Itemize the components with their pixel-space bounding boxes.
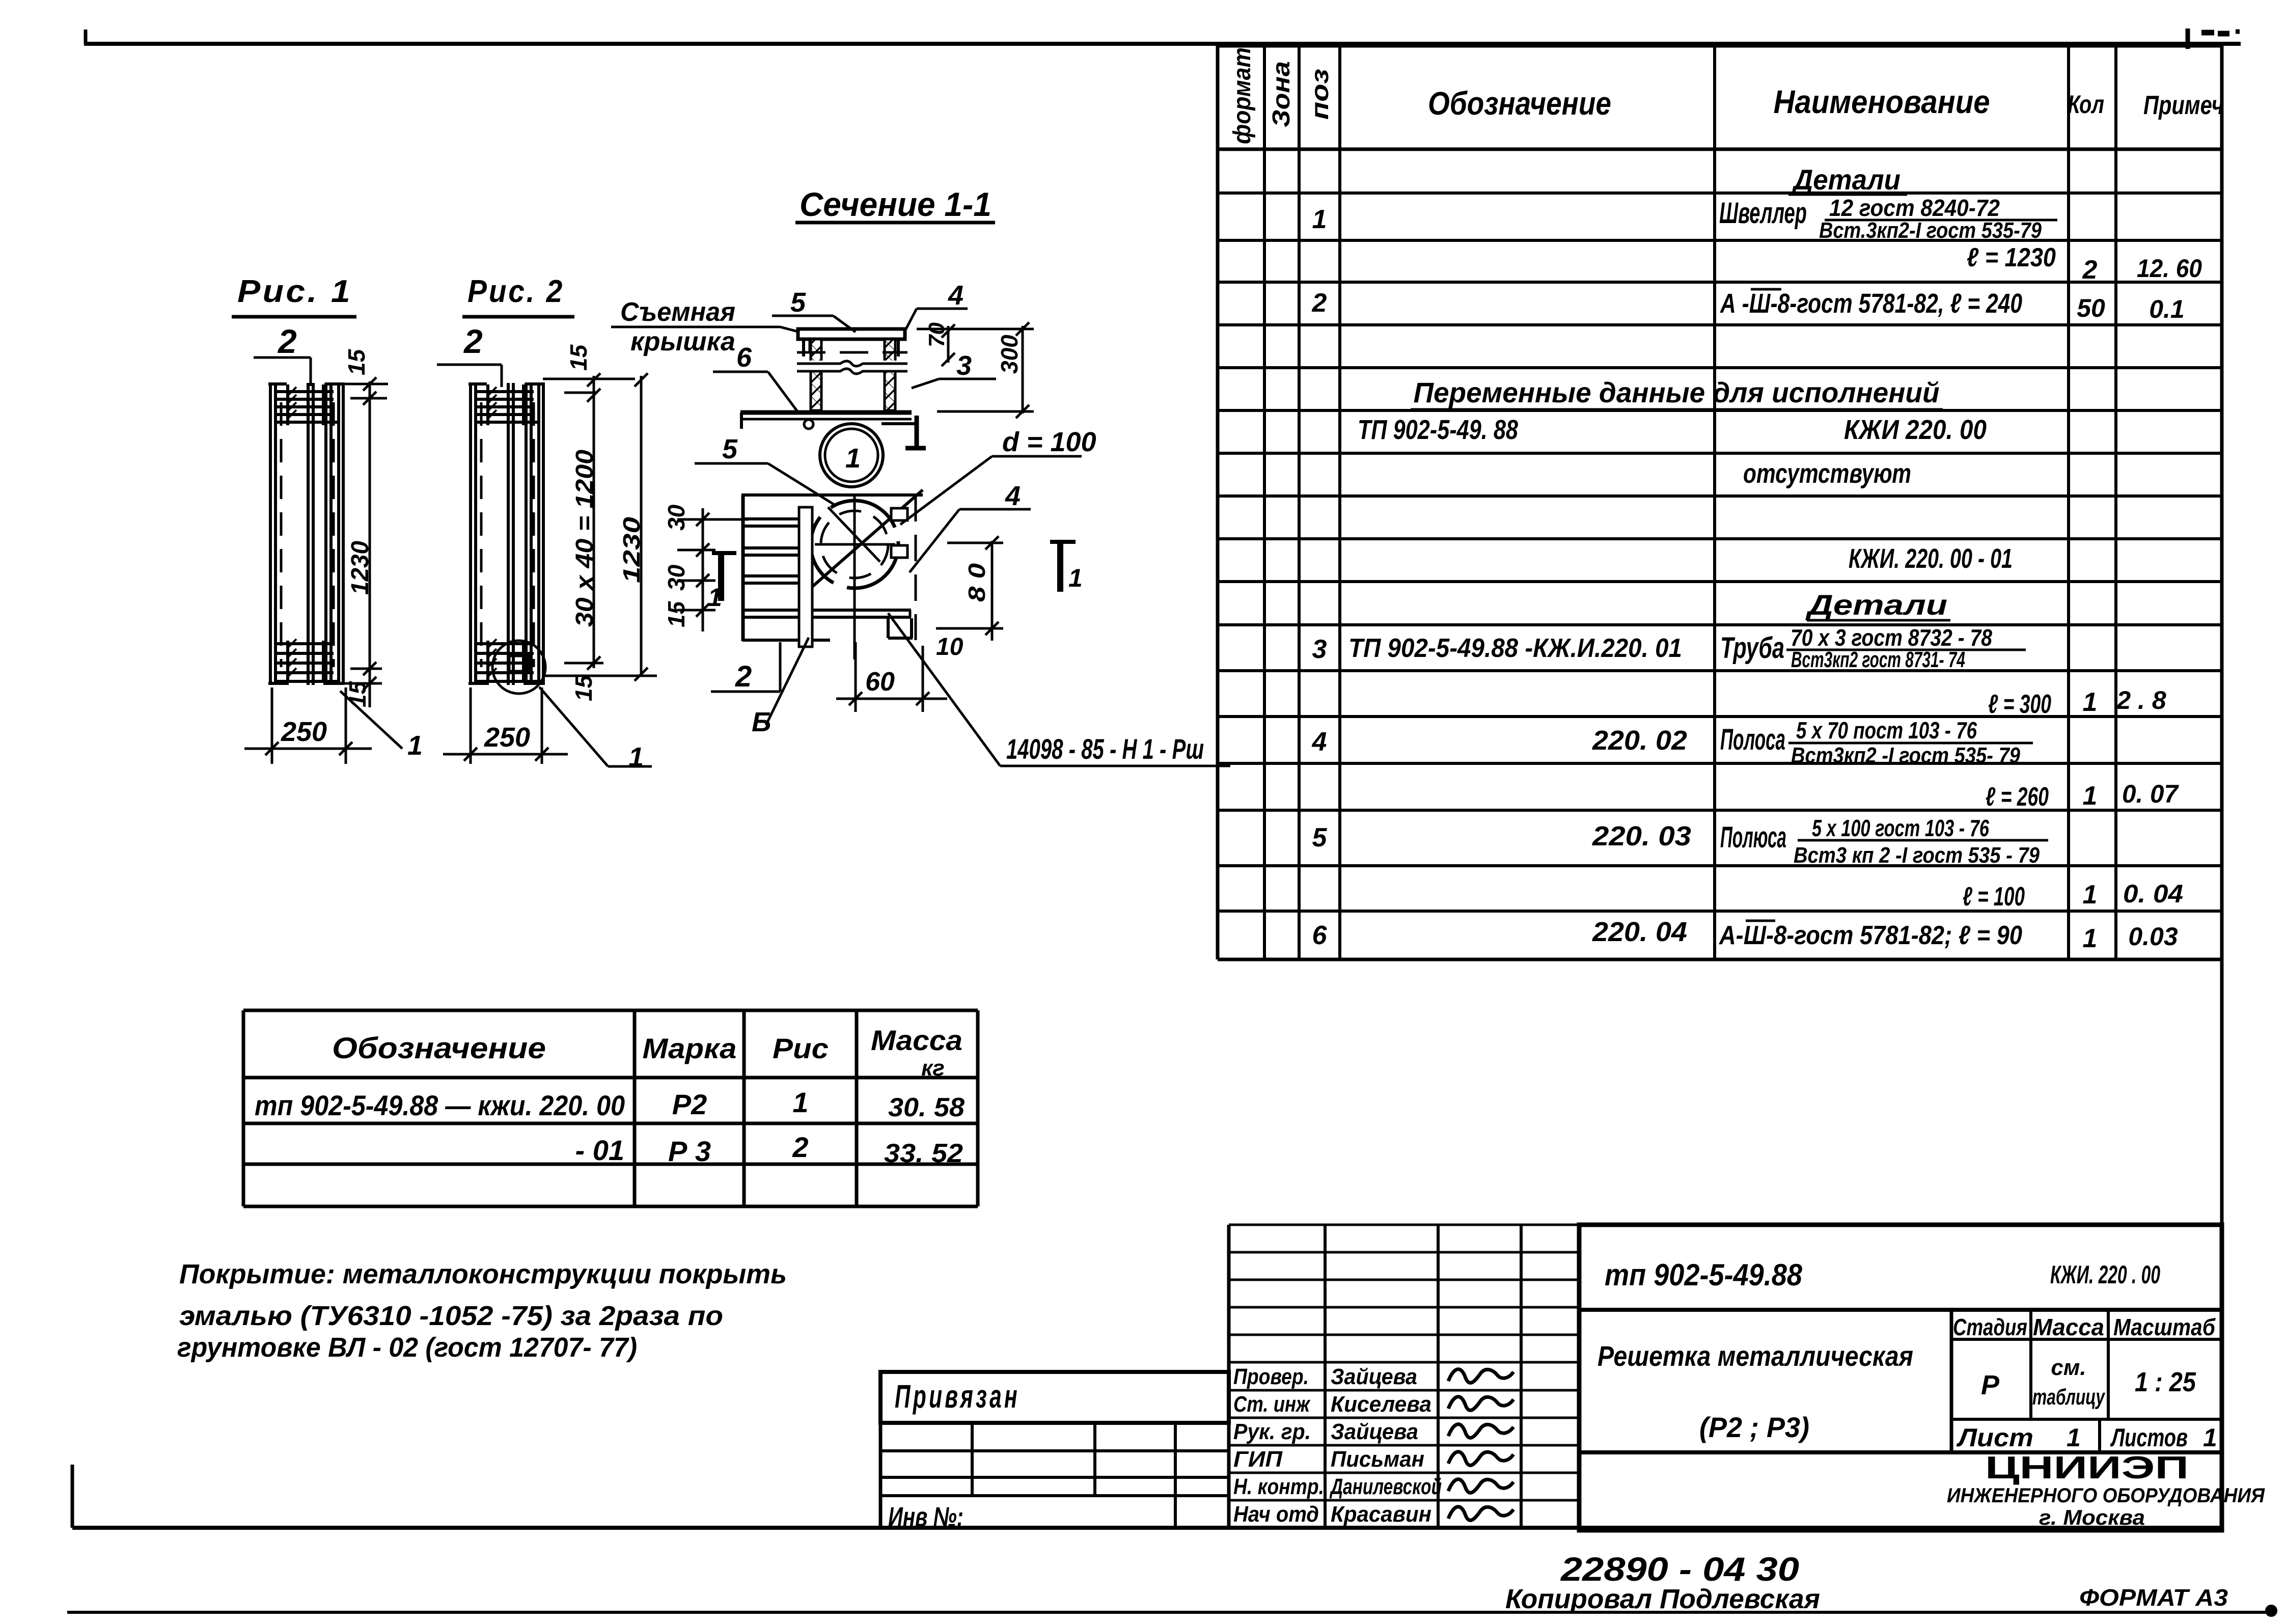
- svg-text:Зайцева: Зайцева: [1331, 1419, 1418, 1444]
- svg-text:Провер.: Провер.: [1233, 1364, 1309, 1389]
- svg-text:50: 50: [2077, 294, 2105, 322]
- svg-text:ℓ = 300: ℓ = 300: [1988, 690, 2051, 719]
- svg-text:Масштаб: Масштаб: [2113, 1314, 2216, 1340]
- svg-text:Примеч: Примеч: [2143, 91, 2224, 120]
- svg-text:2: 2: [792, 1131, 808, 1163]
- left lower grid: [880, 1449, 1229, 1452]
- svg-text:поз: поз: [1307, 69, 1334, 120]
- svg-text:1: 1: [2083, 924, 2098, 953]
- channel outer walls: [469, 383, 472, 685]
- svg-text:1: 1: [1312, 205, 1327, 234]
- svg-text:ГИП: ГИП: [1233, 1447, 1283, 1472]
- svg-text:0. 04: 0. 04: [2123, 879, 2183, 908]
- svg-text:5: 5: [790, 287, 806, 318]
- svg-text:Привязан: Привязан: [895, 1378, 1020, 1415]
- svg-text:5 х 100 гост 103 - 76: 5 х 100 гост 103 - 76: [1812, 815, 1989, 841]
- title block big box: [1579, 1225, 2222, 1530]
- svg-text:Рис. 1: Рис. 1: [237, 274, 352, 309]
- bottom-left table grid: [242, 1010, 245, 1206]
- svg-text:ℓ = 100: ℓ = 100: [1963, 882, 2025, 912]
- svg-text:6: 6: [736, 342, 752, 373]
- svg-text:ФОРМАТ А3: ФОРМАТ А3: [2079, 1584, 2228, 1611]
- svg-text:формат: формат: [1229, 47, 1256, 144]
- svg-text:А-Ш-8-гост 5781-82; ℓ = 90: А-Ш-8-гост 5781-82; ℓ = 90: [1718, 921, 2022, 950]
- svg-text:Марка: Марка: [643, 1032, 737, 1064]
- svg-text:70: 70: [924, 322, 949, 347]
- hook right: [882, 422, 917, 425]
- section cut mark left: [718, 551, 724, 601]
- very bottom line: [67, 1611, 2269, 1614]
- right frame line: [2220, 44, 2224, 1529]
- channel hidden dash lines: [280, 402, 283, 667]
- svg-text:15: 15: [344, 680, 371, 707]
- svg-text:3: 3: [956, 350, 972, 381]
- dim 80: [991, 541, 994, 641]
- svg-text:Листов: Листов: [2110, 1423, 2188, 1452]
- svg-text:ТП 902-5-49. 88: ТП 902-5-49. 88: [1358, 415, 1518, 445]
- svg-text:300: 300: [996, 335, 1023, 374]
- svg-text:Наименование: Наименование: [1774, 84, 1990, 120]
- spec table grid: [1216, 46, 1220, 959]
- svg-text:А -Ш-8-гост 5781-82, ℓ = 240: А -Ш-8-гост 5781-82, ℓ = 240: [1719, 288, 2022, 319]
- svg-text:220. 03: 220. 03: [1592, 821, 1691, 851]
- svg-text:1: 1: [628, 742, 644, 773]
- svg-text:г. Москва: г. Москва: [2039, 1505, 2145, 1529]
- svg-text:Зайцева: Зайцева: [1331, 1364, 1417, 1389]
- svg-text:30. 58: 30. 58: [888, 1093, 965, 1122]
- svg-text:Нач отд: Нач отд: [1233, 1502, 1319, 1527]
- svg-text:Покрытие: металлоконструкции: Покрытие: металлоконструкции покрыть: [179, 1259, 787, 1289]
- right flange stubs: [891, 508, 907, 520]
- fig2 circle detail: [492, 641, 545, 694]
- svg-text:КЖИ 220. 00: КЖИ 220. 00: [1844, 415, 1987, 445]
- svg-text:1: 1: [407, 730, 423, 761]
- svg-text:15: 15: [663, 600, 690, 627]
- svg-text:15: 15: [565, 344, 592, 371]
- fig2 leader 1: [539, 687, 608, 766]
- svg-text:0.03: 0.03: [2128, 922, 2178, 951]
- svg-text:2: 2: [277, 322, 297, 360]
- svg-text:30 х 40 = 1200: 30 х 40 = 1200: [571, 450, 598, 627]
- fig2 dim 250: [470, 687, 472, 764]
- pipe circle 1: [820, 424, 883, 487]
- svg-text:30: 30: [663, 564, 690, 591]
- top right corner marks: [2186, 29, 2190, 49]
- cover plate end tabs: [802, 339, 805, 356]
- top frame line: [84, 42, 2241, 46]
- svg-text:Ст. инж: Ст. инж: [1233, 1392, 1311, 1417]
- bottom rebar band: [477, 642, 534, 645]
- svg-text:(Р2 ; Р3): (Р2 ; Р3): [1699, 1411, 1809, 1443]
- svg-text:Р 3: Р 3: [668, 1135, 711, 1167]
- svg-text:КЖИ. 220. 00 - 01: КЖИ. 220. 00 - 01: [1849, 543, 2013, 574]
- svg-text:4: 4: [1005, 481, 1021, 511]
- channel top/bottom caps: [268, 382, 287, 386]
- svg-text:Переменные данные для испол: Переменные данные для исполнений: [1414, 376, 1940, 408]
- fig1 dim line right (15/1230/15): [369, 381, 371, 707]
- svg-text:1230: 1230: [618, 516, 645, 583]
- svg-text:Решетка металлическая: Решетка металлическая: [1598, 1340, 1913, 1372]
- dim 60: [855, 642, 857, 712]
- fig1 dim 250: [271, 687, 273, 764]
- svg-text:ИНЖЕНЕРНОГО ОБОРУДОВАНИЯ: ИНЖЕНЕРНОГО ОБОРУДОВАНИЯ: [1947, 1484, 2265, 1507]
- main grate body: [741, 493, 923, 497]
- svg-text:ЦНИИЭП: ЦНИИЭП: [1985, 1450, 2189, 1485]
- svg-text:Лист: Лист: [1957, 1423, 2033, 1452]
- svg-text:2: 2: [735, 660, 752, 693]
- circle diagonals: [804, 490, 923, 594]
- svg-text:1: 1: [2083, 880, 2098, 910]
- svg-text:Сечение 1-1: Сечение 1-1: [800, 185, 991, 223]
- svg-text:тп 902-5-49.88 — кжи. 220. 00: тп 902-5-49.88 — кжи. 220. 00: [255, 1089, 625, 1121]
- svg-text:14098 - 85 - Н 1 - Рш: 14098 - 85 - Н 1 - Рш: [1006, 733, 1204, 765]
- svg-text:Стадия: Стадия: [1953, 1314, 2027, 1340]
- svg-text:1: 1: [845, 443, 861, 474]
- svg-text:грунтовке ВЛ - 02 (гост 1: грунтовке ВЛ - 02 (гост 12707- 77): [177, 1332, 637, 1363]
- right bottom angle piece: [887, 618, 890, 638]
- svg-text:0.1: 0.1: [2149, 295, 2185, 323]
- svg-text:1: 1: [2203, 1423, 2217, 1452]
- svg-text:Рис. 2: Рис. 2: [467, 274, 564, 309]
- svg-text:ТП 902-5-49.88 -КЖ.И.220.: ТП 902-5-49.88 -КЖ.И.220. 01: [1348, 634, 1682, 663]
- svg-text:4: 4: [1312, 727, 1327, 757]
- svg-text:Зона: Зона: [1268, 61, 1295, 127]
- svg-text:Съемная: Съемная: [620, 297, 735, 327]
- svg-text:Полюса: Полюса: [1720, 821, 1786, 854]
- svg-text:30: 30: [663, 504, 690, 531]
- svg-text:5 х 70 пост 103 - 76: 5 х 70 пост 103 - 76: [1796, 717, 1977, 744]
- break band: [794, 361, 910, 372]
- svg-text:Киселева: Киселева: [1331, 1392, 1431, 1417]
- svg-text:4: 4: [948, 280, 963, 311]
- svg-text:1: 1: [792, 1086, 808, 1118]
- svg-text:6: 6: [1312, 921, 1328, 950]
- svg-text:Обозначение: Обозначение: [332, 1032, 546, 1065]
- svg-text:1: 1: [2067, 1423, 2081, 1452]
- svg-text:Данилевской: Данилевской: [1329, 1474, 1442, 1499]
- svg-text:Труба: Труба: [1720, 631, 1784, 665]
- svg-text:Рис: Рис: [773, 1032, 829, 1064]
- svg-text:250: 250: [484, 722, 530, 753]
- svg-text:2 . 8: 2 . 8: [2116, 686, 2166, 714]
- svg-text:220. 04: 220. 04: [1592, 917, 1687, 947]
- svg-text:2: 2: [2082, 255, 2098, 285]
- bottom frame line: [72, 1526, 2222, 1530]
- svg-text:5: 5: [1312, 823, 1328, 852]
- svg-text:Копировал Подлевская: Копировал Подлевская: [1505, 1584, 1820, 1614]
- svg-text:8 0: 8 0: [963, 563, 990, 602]
- svg-text:Кол: Кол: [2068, 90, 2104, 119]
- channel middle bars: [307, 383, 310, 685]
- dim 300: [1022, 326, 1024, 414]
- fig2 dim line 1230: [640, 376, 643, 676]
- Лист row: [2098, 1419, 2101, 1452]
- svg-text:1230: 1230: [347, 541, 374, 595]
- svg-text:Швеллер: Швеллер: [1719, 197, 1807, 230]
- svg-text:2: 2: [463, 322, 483, 360]
- big circle with dashed inner: [811, 501, 898, 588]
- стадия масса масштаб: [1950, 1310, 1953, 1452]
- svg-text:1 : 25: 1 : 25: [2135, 1367, 2196, 1397]
- svg-text:Н. контр.: Н. контр.: [1233, 1474, 1324, 1499]
- circle centerlines: [853, 497, 856, 659]
- svg-text:Рук. гр.: Рук. гр.: [1233, 1419, 1311, 1444]
- channel outer walls: [269, 383, 272, 685]
- svg-text:3: 3: [1312, 635, 1327, 664]
- svg-text:Письман: Письман: [1331, 1447, 1424, 1472]
- svg-text:22890 - 04 30: 22890 - 04 30: [1560, 1550, 1800, 1588]
- svg-text:60: 60: [865, 667, 895, 697]
- svg-text:- 01: - 01: [575, 1134, 625, 1166]
- svg-text:33. 52: 33. 52: [884, 1139, 963, 1168]
- cover posts hatched: [811, 339, 821, 410]
- bottom rebar band: [277, 642, 334, 645]
- svg-text:ℓ = 1230: ℓ = 1230: [1967, 243, 2056, 272]
- svg-text:Обозначение: Обозначение: [1428, 85, 1611, 122]
- svg-text:Полоса: Полоса: [1720, 723, 1785, 756]
- svg-text:5: 5: [722, 434, 738, 464]
- svg-text:1: 1: [2083, 687, 2098, 717]
- cover dashed mid line: [797, 351, 907, 354]
- svg-text:220. 02: 220. 02: [1592, 725, 1687, 756]
- svg-text:1: 1: [708, 583, 722, 612]
- Привязан box: [880, 1372, 1229, 1423]
- cover top plate: [798, 329, 905, 339]
- fig2 dim line 30x40=1200: [593, 376, 595, 668]
- svg-text:кг: кг: [921, 1056, 945, 1081]
- svg-text:Вст.3кп2-I гост 535-79: Вст.3кп2-I гост 535-79: [1819, 218, 2042, 243]
- svg-text:Красавин: Красавин: [1331, 1502, 1431, 1527]
- fig1 leader 1: [340, 691, 402, 749]
- svg-text:Вст3кп2 гост 8731- 74: Вст3кп2 гост 8731- 74: [1791, 647, 1965, 672]
- svg-text:тп 902-5-49.88: тп 902-5-49.88: [1605, 1258, 1803, 1292]
- grate bars: [742, 517, 813, 520]
- svg-text:250: 250: [281, 717, 327, 747]
- svg-text:Вст3кп2 -I гост 535- 79: Вст3кп2 -I гост 535- 79: [1791, 743, 2020, 768]
- section cut mark right: [1057, 540, 1063, 592]
- cover bottom plate with hook: [740, 410, 912, 415]
- svg-text:Детали: Детали: [1805, 589, 1947, 621]
- svg-text:1: 1: [1068, 564, 1083, 592]
- svg-text:Масса: Масса: [871, 1024, 962, 1056]
- svg-text:отсутствуют: отсутствуют: [1743, 458, 1911, 489]
- svg-text:Детали: Детали: [1792, 163, 1901, 196]
- channel top/bottom caps: [469, 382, 487, 386]
- svg-text:15: 15: [570, 674, 597, 701]
- signature squiggles: [1448, 1369, 1513, 1383]
- svg-text:Масса: Масса: [2033, 1314, 2104, 1340]
- channel middle bars: [507, 383, 510, 685]
- signature table: [1227, 1225, 1231, 1528]
- top rebar band: [477, 390, 534, 393]
- svg-text:таблицу: таблицу: [2032, 1385, 2106, 1410]
- svg-text:см.: см.: [2051, 1355, 2086, 1380]
- svg-text:10: 10: [936, 634, 963, 660]
- left dims 30/30/15: [702, 508, 704, 631]
- svg-text:1: 1: [2083, 781, 2098, 811]
- svg-text:Р2: Р2: [672, 1088, 707, 1120]
- dim 70: [947, 326, 950, 363]
- svg-text:Инв №:: Инв №:: [888, 1502, 963, 1532]
- svg-text:2: 2: [1312, 288, 1327, 318]
- svg-text:Вст3 кп 2 -I гост 535 - 79: Вст3 кп 2 -I гост 535 - 79: [1794, 843, 2040, 868]
- svg-text:12. 60: 12. 60: [2137, 254, 2202, 283]
- svg-text:ℓ = 260: ℓ = 260: [1986, 782, 2049, 812]
- svg-text:12 гост 8240-72: 12 гост 8240-72: [1829, 195, 2000, 221]
- svg-text:0. 07: 0. 07: [2122, 780, 2179, 808]
- svg-text:Р: Р: [1981, 1370, 2000, 1400]
- top rebar band: [277, 390, 334, 393]
- svg-text:КЖИ. 220 . 00: КЖИ. 220 . 00: [2050, 1260, 2160, 1289]
- svg-text:эмалью (ТУ6310 -1052 -75) з: эмалью (ТУ6310 -1052 -75) за 2раза по: [179, 1301, 723, 1331]
- svg-text:крышка: крышка: [630, 327, 735, 356]
- vertical flat bar: [799, 507, 812, 647]
- svg-text:15: 15: [343, 348, 370, 375]
- svg-text:d = 100: d = 100: [1002, 427, 1096, 457]
- channel hidden dash lines: [480, 402, 483, 667]
